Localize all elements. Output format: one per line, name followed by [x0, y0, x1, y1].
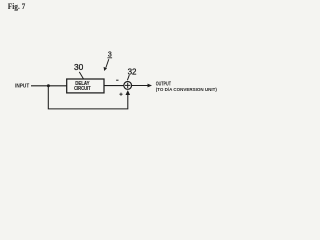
- arrowhead: leader 3: [104, 67, 107, 71]
- node: input branch junction dot: [47, 84, 50, 87]
- svg-text:INPUT: INPUT: [15, 84, 29, 90]
- plus cross inside summer: [125, 83, 130, 88]
- minus sign at summer upper-left input: [116, 79, 118, 81]
- leader arrow for 3: [106, 59, 109, 67]
- svg-text:32: 32: [128, 66, 137, 76]
- wire: INPUT line to delay circuit: [31, 85, 67, 87]
- svg-text:3: 3: [108, 49, 112, 58]
- leader line for 32: [127, 75, 129, 80]
- leader line for 30: [79, 72, 83, 79]
- wire: summer output line: [132, 85, 148, 87]
- arrowhead: feedback into summer (+ input): [126, 90, 131, 95]
- svg-text:Fig. 7: Fig. 7: [8, 2, 26, 11]
- svg-text:OUTPUT: OUTPUT: [156, 82, 171, 88]
- wire: feedback path (down, right, up to summer): [48, 86, 128, 109]
- summing junction 32 (adder circle): [124, 82, 132, 90]
- arrowhead: output arrow: [148, 84, 153, 88]
- plus sign at summer lower-left input: [119, 93, 122, 96]
- wire: delay circuit output to summing junction: [104, 85, 124, 87]
- svg-text:CIRCUIT: CIRCUIT: [74, 86, 91, 92]
- underline of 3: [107, 56, 112, 59]
- block: delay circuit 30: [67, 79, 104, 93]
- paper background: [0, 0, 229, 120]
- svg-text:30: 30: [74, 63, 84, 72]
- svg-text:(TO D/A CONVERSION UNIT): (TO D/A CONVERSION UNIT): [156, 87, 218, 93]
